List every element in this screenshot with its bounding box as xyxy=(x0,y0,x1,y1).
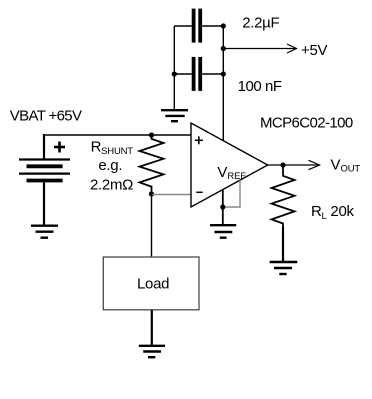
op-amp U1 xyxy=(191,123,268,207)
node V_REF junction xyxy=(220,204,225,209)
node +5V tap xyxy=(221,46,226,51)
svg-text:+5V: +5V xyxy=(301,42,328,59)
wire +5V arrow xyxy=(223,44,296,53)
ground R_L xyxy=(270,262,298,274)
wire cap C1 right lead xyxy=(202,25,223,27)
node cap rail right bottom xyxy=(221,71,226,76)
wire left cap rail vertical xyxy=(173,26,175,110)
wire output with arrow xyxy=(268,160,320,169)
node R_SHUNT top xyxy=(149,132,154,137)
battery plus label xyxy=(54,142,65,153)
wire battery bottom to ground xyxy=(43,183,45,226)
resistor R_SHUNT xyxy=(140,135,164,194)
svg-text:2.2mΩ: 2.2mΩ xyxy=(90,177,133,194)
svg-text:Load: Load xyxy=(137,275,169,292)
wire cap C2 right lead xyxy=(202,73,223,75)
wire +5V rail vertical to op-amp top xyxy=(222,26,224,141)
svg-text:VBAT +65V: VBAT +65V xyxy=(10,107,82,124)
node cap rail right top xyxy=(221,23,226,28)
svg-text:e.g.: e.g. xyxy=(98,157,122,174)
op-amp minus input mark xyxy=(196,191,202,193)
wire op-amp ground stem xyxy=(222,190,224,225)
ground Load xyxy=(139,346,165,357)
ground battery xyxy=(31,226,58,238)
wire minus input (gray) xyxy=(152,194,192,196)
node R_SHUNT bottom xyxy=(149,191,154,196)
battery B1 xyxy=(19,160,70,181)
svg-text:100 nF: 100 nF xyxy=(238,78,282,95)
node output xyxy=(280,162,285,167)
wire R_SHUNT bottom to Load xyxy=(151,194,153,257)
svg-text:RL 20k: RL 20k xyxy=(311,203,354,222)
ground op-amp xyxy=(210,225,236,238)
wire Load bottom to ground xyxy=(151,310,153,346)
op-amp plus input mark xyxy=(195,136,203,144)
node cap rail left xyxy=(172,71,177,76)
svg-text:2.2µF: 2.2µF xyxy=(242,15,279,32)
capacitor C2 100nF xyxy=(194,57,201,91)
wire cap C2 left lead xyxy=(174,73,191,75)
resistor R_L xyxy=(272,165,295,227)
ground cap rail xyxy=(161,110,188,121)
capacitor C1 2.2uF xyxy=(194,9,201,43)
wire battery top to R_SHUNT top and op-amp + input xyxy=(43,134,45,159)
wire V_REF pin (gray) xyxy=(223,180,240,207)
wire cap C1 left lead xyxy=(174,25,191,27)
svg-text:MCP6C02-100: MCP6C02-100 xyxy=(260,114,353,131)
Load box xyxy=(103,257,199,310)
